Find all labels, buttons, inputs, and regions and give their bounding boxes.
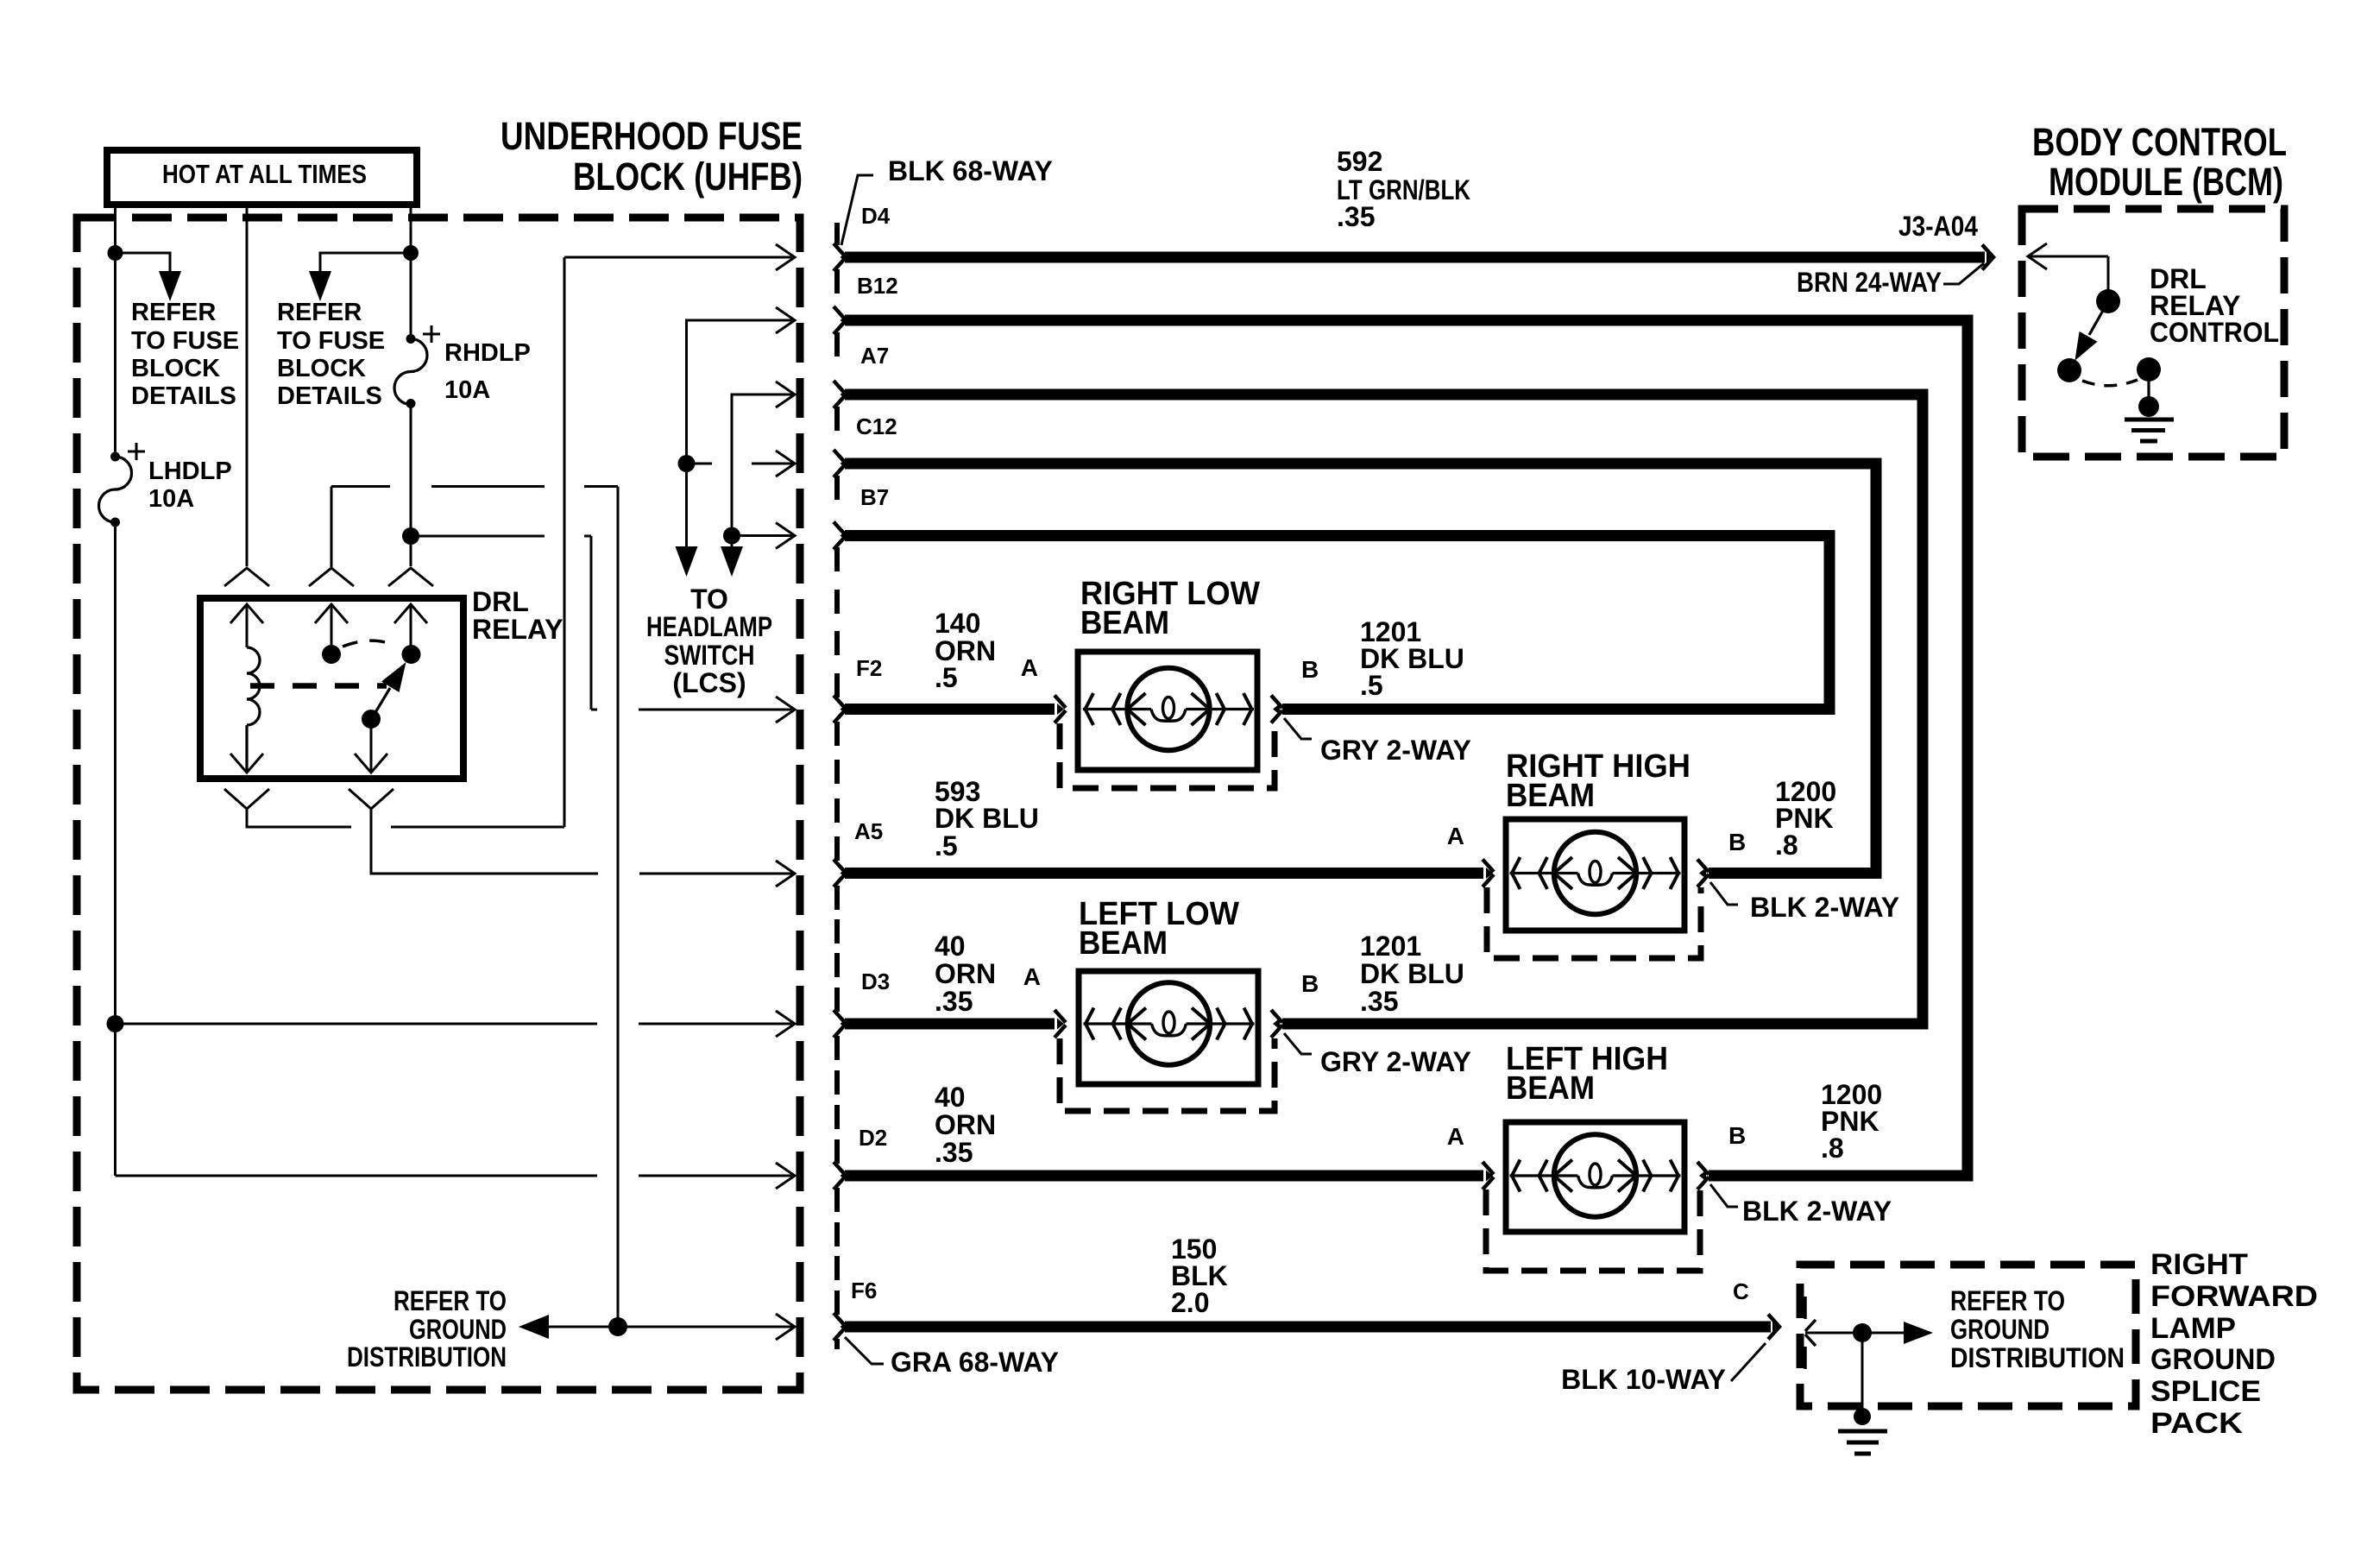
relay coil bottom arrow inside box [230, 754, 263, 773]
svg-text:BLOCK (UHFB): BLOCK (UHFB) [573, 155, 803, 199]
svg-text:A5: A5 [854, 818, 883, 844]
svg-text:GROUND: GROUND [1950, 1314, 2049, 1345]
svg-text:A: A [1447, 823, 1464, 849]
HOT AT ALL TIMES power box [107, 150, 417, 205]
wire A7 circuit to left low beam B [845, 394, 1923, 1024]
svg-text:B: B [1728, 829, 1746, 855]
wire: D3 feed (left low beam) with hop over ground line [116, 1023, 793, 1025]
svg-text:TO: TO [690, 584, 728, 615]
svg-text:BEAM: BEAM [1506, 778, 1595, 814]
arrow: refer to ground distribution (right filled arrow) [1904, 1322, 1933, 1344]
wire: branch to refer-to-fuse-details arrow 2 [320, 253, 411, 275]
svg-text:A7: A7 [860, 343, 889, 369]
svg-text:.35: .35 [935, 986, 973, 1017]
arrow into connector D3 [776, 1011, 795, 1037]
svg-text:SWITCH: SWITCH [664, 640, 755, 671]
arrow into connector F6 [776, 1314, 795, 1340]
arrow: to headlamp switch (right filled down arrow) [721, 546, 743, 577]
svg-text:FORWARD: FORWARD [2150, 1280, 2318, 1313]
arrow: refer to ground distribution (left filled arrow) [519, 1315, 549, 1339]
relay armature line down and arrow [370, 719, 373, 773]
relay armature arm with arrowhead [375, 688, 390, 714]
arrow: to headlamp switch (left filled down arrow) [676, 546, 698, 577]
svg-text:D3: D3 [861, 969, 890, 994]
wire: HOT feed to relay coil (x=286) [246, 205, 249, 566]
right low beam component dashed outline [1060, 723, 1275, 788]
wire: ground riser x=716 down to F6 junction [617, 487, 620, 1328]
svg-text:B7: B7 [860, 484, 889, 510]
arrow into connector B12 [776, 307, 795, 333]
svg-text:B12: B12 [857, 273, 898, 299]
svg-text:REFER: REFER [277, 299, 362, 326]
left high beam component dashed outline [1486, 1190, 1700, 1271]
svg-text:F6: F6 [851, 1278, 877, 1303]
svg-text:.35: .35 [1360, 986, 1398, 1017]
terminal chevron D4 [834, 243, 845, 271]
node: junction dot RHDLP output to F2 feed [402, 527, 419, 545]
terminal chevron left low beam pin A [1055, 1010, 1066, 1038]
svg-text:BLK 2-WAY: BLK 2-WAY [1750, 892, 1899, 923]
svg-text:BEAM: BEAM [1079, 925, 1168, 962]
svg-text:LAMP: LAMP [2150, 1312, 2236, 1345]
node: relay armature pivot dot [362, 710, 381, 729]
svg-text:CONTROL: CONTROL [2150, 317, 2279, 348]
wire: relay fixed contact to ground line H1 (hops over x=476 and x=654) [331, 487, 618, 569]
relay contact dashed arc [343, 641, 391, 647]
svg-text:HOT AT ALL TIMES: HOT AT ALL TIMES [162, 159, 367, 189]
svg-text:ORN: ORN [935, 1109, 996, 1140]
svg-text:RELAY: RELAY [472, 614, 564, 645]
BCM switch dashed arc [2082, 380, 2138, 386]
svg-text:A: A [1021, 654, 1038, 681]
svg-text:.8: .8 [1775, 830, 1798, 861]
terminal chevron F2 [834, 696, 845, 723]
node: ground stud dot [1854, 1408, 1871, 1425]
terminal chevron left high beam pin B [1697, 1162, 1709, 1190]
wire 593 DK BLU .5 circuit A5 to right high beam A [845, 868, 1483, 879]
svg-text:ORN: ORN [935, 958, 996, 989]
wire: HOT feed to RHDLP fuse (x=476) [410, 205, 412, 339]
svg-text:DISTRIBUTION: DISTRIBUTION [347, 1341, 507, 1373]
terminal chevron right high beam pin A [1483, 860, 1494, 887]
svg-text:RIGHT: RIGHT [2150, 1248, 2248, 1281]
svg-text:BLK 10-WAY: BLK 10-WAY [1561, 1364, 1726, 1395]
ground symbol in BCM [2125, 420, 2174, 441]
svg-text:.8: .8 [1821, 1133, 1844, 1164]
node: relay fixed contact dot [322, 645, 341, 664]
svg-text:.35: .35 [1337, 201, 1375, 232]
terminal chevron at BCM end of D4 wire [1982, 245, 1993, 270]
wire: x=654 riser up to D4 row [564, 257, 566, 827]
node: splice junction dot [1853, 1323, 1872, 1342]
svg-text:DRL: DRL [472, 586, 529, 617]
wire: HOT feed to LHDLP fuse (x=133) [114, 205, 116, 457]
svg-text:TO FUSE: TO FUSE [277, 327, 385, 355]
wire: F2 feed vertical drop at x=685 [590, 536, 593, 710]
wire: branch to refer-to-fuse-details arrow 1 [116, 253, 171, 275]
svg-text:10A: 10A [148, 485, 194, 513]
wire: D4 feed to BCM connector row [564, 256, 792, 259]
wire: relay armature output to A5 row with hop over ground line [371, 809, 792, 874]
wire B7 circuit to right low beam B [845, 536, 1829, 710]
svg-text:C: C [1733, 1278, 1749, 1304]
svg-text:SPLICE: SPLICE [2150, 1375, 2261, 1408]
svg-text:D4: D4 [861, 203, 891, 229]
fuse RHDLP 10A [394, 325, 440, 405]
BCM DRL relay control switch arm with arrowhead [2089, 301, 2108, 335]
svg-text:D2: D2 [859, 1125, 887, 1151]
UHFB title [501, 114, 803, 199]
svg-text:.35: .35 [935, 1137, 973, 1168]
underhood fuse block UHFB dashed boundary [77, 218, 800, 1390]
relay pin 3 arrow inside box [394, 604, 427, 646]
wire: BCM ground contact to ground [2147, 369, 2150, 407]
svg-text:GRY 2-WAY: GRY 2-WAY [1320, 735, 1471, 766]
wire: D2 feed (left high beam) with hop over ground line [116, 1175, 793, 1177]
svg-text:J3-A04: J3-A04 [1898, 211, 1978, 242]
svg-text:PACK: PACK [2150, 1407, 2243, 1440]
svg-text:GRY 2-WAY: GRY 2-WAY [1320, 1046, 1471, 1077]
wire: LHDLP fuse output down to D3/D2 feeds [114, 522, 116, 1176]
svg-text:.5: .5 [1360, 670, 1383, 701]
wire end tips (tapered points at connector terminals) [841, 252, 1994, 1333]
svg-text:GROUND: GROUND [2150, 1343, 2276, 1376]
node: junction dot RHDLP branch [403, 245, 419, 261]
node: B7 junction dot on riser x=848 [723, 527, 740, 545]
svg-text:BRN 24-WAY: BRN 24-WAY [1797, 267, 1942, 298]
node: BCM ground dot [2138, 396, 2159, 417]
svg-text:DETAILS: DETAILS [277, 382, 382, 410]
terminal chevron left low beam pin B [1271, 1010, 1282, 1038]
svg-text:LHDLP: LHDLP [148, 458, 232, 485]
node: F6 ground junction dot [608, 1317, 627, 1336]
relay coil [247, 647, 260, 773]
wire: relay coil low side to x=654 riser [247, 809, 564, 827]
wire: splice pack internal ground line [1805, 1332, 1904, 1335]
node: BCM switch pivot dot [2096, 289, 2120, 313]
svg-text:.5: .5 [935, 662, 958, 693]
wire 140 ORN .5 circuit F2 to right low beam A [845, 704, 1055, 715]
svg-text:BLOCK: BLOCK [131, 355, 220, 382]
wire 592 LT GRN/BLK .35 circuit D4 to BCM [845, 252, 1985, 263]
arrow into connector B7 [776, 523, 795, 549]
terminal chevron left high beam pin A [1483, 1162, 1494, 1190]
svg-text:B: B [1301, 970, 1319, 997]
terminal chevron right low beam pin A [1055, 696, 1066, 723]
wire: splice to chassis ground [1861, 1333, 1864, 1413]
connector BLK 68-WAY / GRA 68-WAY dashed connector line [834, 223, 840, 1349]
wire: C12 row feed with hop over x=848 riser [687, 463, 793, 465]
relay mechanical link dashed line [250, 683, 387, 689]
bulb left high beam [1510, 1134, 1681, 1216]
svg-text:RHDLP: RHDLP [444, 339, 531, 367]
terminal chevron B12 [834, 306, 845, 334]
svg-text:REFER TO: REFER TO [1950, 1285, 2065, 1316]
svg-text:.5: .5 [935, 830, 958, 861]
arrow into connector A5 [776, 861, 795, 887]
svg-text:UNDERHOOD FUSE: UNDERHOOD FUSE [501, 114, 803, 158]
node: junction dot D3 feed [107, 1015, 124, 1032]
wire: F6 ground row line [549, 1326, 792, 1328]
connector label BLK 2-WAY left high beam [1710, 1184, 1738, 1207]
svg-text:REFER TO: REFER TO [394, 1285, 507, 1316]
node: relay common contact dot [402, 645, 421, 664]
svg-text:C12: C12 [856, 413, 897, 439]
wire: BCM switch feed down [2107, 256, 2110, 301]
connector chevron above relay pin 2 (fixed contact) [309, 568, 354, 586]
svg-text:REFER: REFER [131, 299, 216, 326]
svg-text:B: B [1728, 1122, 1746, 1149]
relay pin 2 arrow inside box [315, 604, 348, 646]
svg-text:2.0: 2.0 [1171, 1287, 1209, 1318]
svg-text:MODULE (BCM): MODULE (BCM) [2049, 160, 2283, 204]
svg-text:GRA 68-WAY: GRA 68-WAY [891, 1347, 1059, 1378]
svg-text:BLOCK: BLOCK [277, 355, 366, 382]
wire C12 circuit to right high beam B [845, 464, 1876, 874]
terminal chevron A5 [834, 860, 845, 887]
node: C12 junction dot on riser x=795.5 [678, 455, 696, 472]
relay DRL RELAY box [200, 598, 463, 779]
BCM input arrow J3-A04 [2028, 243, 2108, 269]
arrow into connector C12 [776, 451, 795, 476]
connector label GRY 2-WAY left low beam [1284, 1033, 1312, 1054]
wire: F2 feed horizontal with hop over x=654 [411, 535, 591, 538]
svg-text:B: B [1301, 656, 1319, 683]
wire: F2 feed (right low beam) with hop over ground line [591, 709, 792, 711]
arrow into connector F2 [776, 697, 795, 723]
terminal chevron B7 [834, 522, 845, 550]
splice pack dashed boundary [1800, 1265, 2136, 1406]
svg-text:F2: F2 [856, 655, 882, 681]
connector chevron below relay armature pin [349, 789, 394, 809]
node: BCM switch throw dot [2057, 358, 2081, 382]
node: junction dot LHDLP branch [108, 245, 123, 261]
fuse LHDLP 10A [99, 443, 146, 522]
arrow into connector A7 [776, 382, 795, 407]
terminal chevron right high beam pin B [1697, 860, 1709, 887]
svg-text:BEAM: BEAM [1080, 605, 1169, 641]
terminal chevron D3 [834, 1010, 845, 1038]
svg-text:BEAM: BEAM [1506, 1070, 1595, 1107]
connector chevron above relay pin 1 (coil) [224, 568, 269, 586]
wire: B12 row feed from headlamp switch riser x=795.5 [687, 320, 793, 549]
svg-text:(LCS): (LCS) [672, 667, 746, 698]
relay pin 1 arrow inside box [230, 604, 263, 647]
terminal chevron D2 [834, 1162, 845, 1190]
wire B12 circuit to left high beam B [845, 320, 1968, 1176]
ground symbol splice pack [1838, 1431, 1887, 1454]
arrow into connector D4 [776, 244, 795, 270]
arrow: refer to fuse block details 1 [159, 271, 181, 301]
connector chevron above relay pin 3 (common) [388, 568, 433, 586]
wire: B7 row feed [732, 534, 792, 537]
svg-text:40: 40 [935, 1082, 966, 1113]
bulb right low beam [1083, 668, 1254, 750]
svg-text:DISTRIBUTION: DISTRIBUTION [1950, 1342, 2125, 1373]
bulb left low beam [1084, 982, 1255, 1064]
svg-text:140: 140 [935, 608, 980, 639]
connector label BLK 2-WAY right high beam [1710, 882, 1738, 905]
wire 40 ORN .35 circuit D2 to left high beam A [845, 1171, 1483, 1182]
svg-text:HEADLAMP: HEADLAMP [646, 611, 772, 642]
svg-text:10A: 10A [444, 376, 490, 404]
terminal chevron at splice pack end of F6 wire [1768, 1315, 1779, 1340]
terminal chevron right low beam pin B [1271, 696, 1282, 723]
svg-text:BODY CONTROL: BODY CONTROL [2032, 120, 2287, 164]
svg-text:BLK 68-WAY: BLK 68-WAY [888, 155, 1053, 186]
arrow into connector D2 [776, 1163, 795, 1189]
svg-text:DK BLU: DK BLU [1360, 958, 1464, 989]
splice pack female terminal chevron [1805, 1297, 1816, 1369]
terminal chevron A7 [834, 381, 845, 408]
arrow: refer to fuse block details 2 [309, 271, 331, 301]
terminal chevron C12 [834, 450, 845, 477]
bulb right high beam [1510, 832, 1681, 914]
svg-text:GROUND: GROUND [409, 1314, 507, 1345]
connector label GRY 2-WAY right low beam [1284, 718, 1312, 739]
svg-text:A: A [1447, 1123, 1464, 1150]
svg-text:1201: 1201 [1360, 931, 1421, 962]
wire: A7 row feed from headlamp switch riser x=848 [732, 394, 792, 549]
svg-text:40: 40 [935, 931, 966, 962]
node: BCM ground contact dot [2137, 357, 2161, 382]
svg-text:TO FUSE: TO FUSE [131, 327, 239, 355]
svg-text:A: A [1023, 963, 1041, 990]
BCM dashed boundary [2022, 209, 2284, 457]
wire 150 BLK 2.0 circuit F6 to ground splice pack [845, 1322, 1771, 1333]
left low beam component dashed outline [1060, 1038, 1275, 1111]
svg-text:BLK 2-WAY: BLK 2-WAY [1742, 1196, 1892, 1227]
svg-text:592: 592 [1337, 146, 1382, 177]
svg-text:DETAILS: DETAILS [131, 382, 236, 410]
right high beam component dashed outline [1487, 887, 1701, 958]
wire: RHDLP fuse output down to relay pin [410, 404, 412, 567]
terminal chevron F6 [834, 1313, 845, 1341]
svg-text:DK BLU: DK BLU [935, 803, 1039, 834]
connector chevron below relay pin coil [224, 789, 269, 809]
wire 40 ORN .35 circuit D3 to left low beam A [845, 1019, 1055, 1030]
